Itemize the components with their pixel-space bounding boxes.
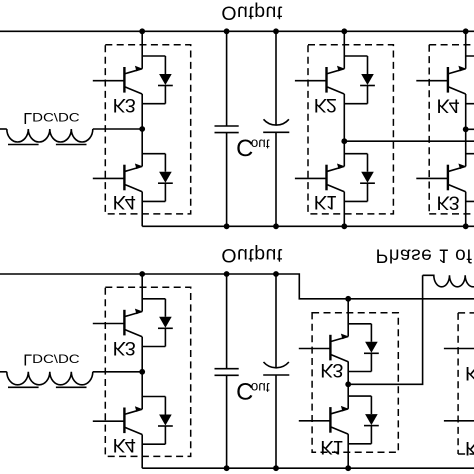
svg-text:Cout: Cout <box>236 134 270 161</box>
wire: emitter down right box row1 <box>465 192 467 227</box>
wire: collector K3 row2 <box>141 274 143 312</box>
transistor K4 row2 <box>93 397 173 445</box>
svg-text:K3: K3 <box>113 94 136 116</box>
wire: K1 emitter down to bottom rail row2 <box>347 434 349 468</box>
core bar 1 <box>8 144 39 146</box>
inductor phase 1 (cut at right edge) <box>423 275 474 287</box>
core bar 2 row2 <box>56 386 87 388</box>
wire: phase output from K2/K1 midpoint <box>344 140 474 142</box>
inductor L_DC/DC row1 <box>0 128 7 130</box>
transistor K3 row2 <box>93 299 173 347</box>
dashed module box K3/K1 row2 <box>312 313 398 452</box>
svg-text:K4: K4 <box>113 191 136 213</box>
dashed module box K3/K4 row1 <box>105 45 190 214</box>
wire: bottom rail row1 <box>142 225 474 227</box>
capacitor C1 row2 (film) <box>226 274 228 369</box>
wire: DC+ rail row2 with jog <box>0 274 474 299</box>
gate lead stub bottom transistor right box row2 <box>444 420 474 422</box>
node: bottom rail row1 junctions <box>224 223 230 229</box>
svg-text:K2: K2 <box>314 94 337 116</box>
svg-text:Output: Output <box>221 244 282 266</box>
svg-text:Phase 1 of: Phase 1 of <box>376 244 473 265</box>
node: midpoint right box row1 <box>463 126 469 132</box>
node: midpoint K3/K4 row2 <box>139 369 145 375</box>
node: midpoint K3/K1 row2 <box>345 381 351 387</box>
wire: K3 emitter to K4 collector <box>141 94 143 166</box>
wire: collector top transistor right box row1 <box>465 31 467 68</box>
dashed module box row2 right (cut at edge) <box>458 313 474 454</box>
svg-text:K3: K3 <box>320 359 343 381</box>
capacitor C1 row1 (film) <box>226 31 228 126</box>
svg-text:LDC/DC: LDC/DC <box>23 351 80 369</box>
transistor K2 row1 <box>295 56 375 104</box>
svg-text:K3: K3 <box>113 337 136 359</box>
dashed module box K2/K1 row1 <box>308 45 393 214</box>
wire: K2 emitter to K1 collector <box>343 94 345 166</box>
wire: mid connection right box row1 <box>465 94 467 166</box>
node: rail1 junctions <box>139 28 145 34</box>
node: rail row2 junctions <box>139 271 145 277</box>
svg-text:K1: K1 <box>320 436 343 458</box>
transistor K1 row2 mid box <box>299 396 379 444</box>
dashed module box K4/K3 row1 (cut at right edge) <box>429 45 474 214</box>
wire: midpoint stub right box row1 <box>466 128 474 130</box>
wire: collector K3 row1 <box>141 31 143 68</box>
svg-text:K3: K3 <box>465 362 474 384</box>
wire: inductor to half-bridge midpoint row2 <box>93 371 142 373</box>
svg-text:K1: K1 <box>465 437 474 459</box>
wire: K1 emitter down to bottom rail <box>343 192 345 227</box>
wire: K3 emitter to K1 collector row2 mid box <box>347 362 349 409</box>
svg-text:K4: K4 <box>437 95 460 117</box>
node: bottom rail row2 junctions <box>224 465 230 471</box>
wire: phase 1 output from midpoint up to inductor <box>348 275 422 384</box>
wire: inductor to half-bridge midpoint <box>93 128 142 130</box>
core bar 2 <box>56 144 87 146</box>
wire: K4 emitter down to bottom rail row2 <box>141 435 143 469</box>
wire: collector K3 row2 mid box <box>347 299 349 337</box>
svg-text:K1: K1 <box>314 191 337 213</box>
transistor K4 row1 right box <box>416 56 474 104</box>
gate lead stub top transistor right box row2 <box>444 348 474 350</box>
svg-text:K3: K3 <box>437 192 460 214</box>
inductor L_DC/DC row2 <box>0 371 7 373</box>
core bar 1 row2 <box>8 386 39 388</box>
node: midpoint K3/K4 row1 <box>139 126 145 132</box>
capacitor C2 row1 (electrolytic curved plate) <box>275 31 277 125</box>
wire: K3 emitter to K4 collector row2 <box>141 337 143 409</box>
wire: DC+ rail row1 <box>0 30 474 32</box>
wire: K4 emitter down to bottom rail <box>141 192 143 227</box>
transistor K1 row1 <box>295 154 375 202</box>
svg-text:K4: K4 <box>113 434 136 456</box>
svg-text:LDC/DC: LDC/DC <box>23 109 80 127</box>
dashed module box K3/K4 row2 <box>105 287 190 456</box>
svg-text:Cout: Cout <box>236 377 270 404</box>
wire: collector K2 row1 <box>343 31 345 68</box>
node: midpoint K2/K1 row1 <box>341 138 347 144</box>
capacitor C2 row2 (electrolytic curved plate) <box>275 274 277 368</box>
transistor K4 row1 <box>93 154 173 202</box>
transistor K3 row2 mid box <box>299 324 379 372</box>
transistor K3 row1 <box>93 56 173 104</box>
svg-text:Output: Output <box>221 2 282 24</box>
transistor K3 row1 right box <box>416 154 474 202</box>
wire: bottom rail row2 <box>142 467 474 469</box>
